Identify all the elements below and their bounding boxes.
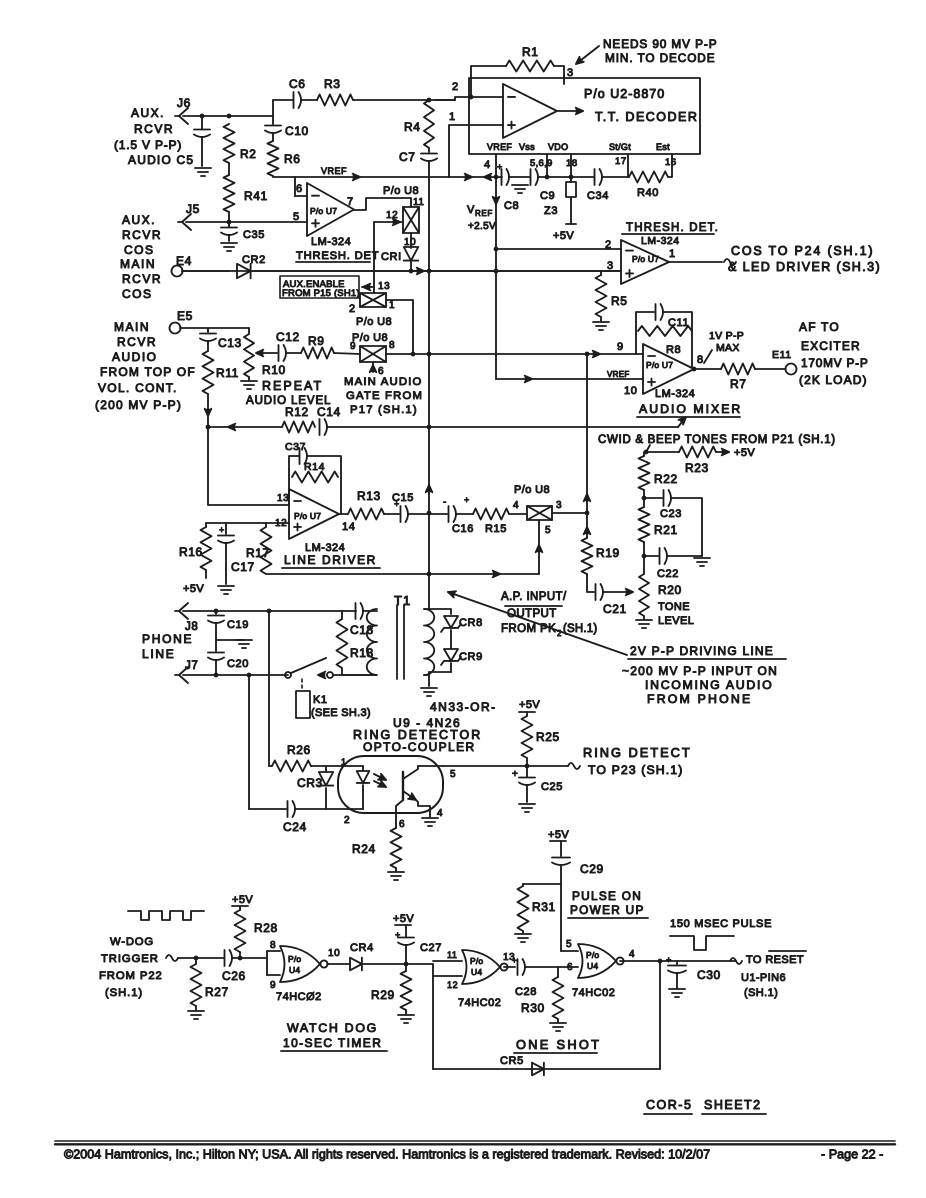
- svg-text:R15: R15: [485, 523, 507, 535]
- svg-text:1: 1: [449, 111, 456, 123]
- svg-text:+: +: [666, 955, 672, 965]
- svg-text:C29: C29: [580, 862, 604, 876]
- svg-text:LINE: LINE: [142, 647, 175, 661]
- svg-text:CWID & BEEP TONES FROM P21 (SH: CWID & BEEP TONES FROM P21 (SH.1): [598, 434, 836, 446]
- svg-text:(SH.1): (SH.1): [105, 987, 143, 999]
- svg-text:74HC02: 74HC02: [458, 997, 501, 1009]
- svg-text:R6: R6: [284, 152, 301, 166]
- svg-text:P/o U7: P/o U7: [632, 254, 659, 264]
- svg-text:R5: R5: [611, 294, 628, 308]
- svg-text:10: 10: [328, 948, 340, 959]
- svg-text:R23: R23: [685, 461, 709, 475]
- svg-text:5,6,9: 5,6,9: [530, 158, 553, 169]
- svg-text:OUTPUT: OUTPUT: [507, 608, 557, 620]
- svg-text:E11: E11: [772, 349, 792, 361]
- svg-text:C30: C30: [697, 968, 721, 982]
- svg-text:TO RESET: TO RESET: [746, 954, 804, 966]
- svg-text:St/Gt: St/Gt: [609, 142, 631, 152]
- svg-text:C37: C37: [285, 441, 306, 453]
- svg-text:P/o U8: P/o U8: [356, 316, 392, 328]
- svg-text:2: 2: [452, 81, 459, 93]
- svg-text:~200 MV P-P INPUT ON: ~200 MV P-P INPUT ON: [622, 664, 778, 678]
- svg-text:LM-324: LM-324: [655, 388, 695, 400]
- svg-text:R12: R12: [285, 405, 309, 419]
- svg-text:U4: U4: [289, 965, 300, 975]
- svg-text:CR4: CR4: [350, 942, 374, 954]
- svg-text:P/o U7: P/o U7: [310, 206, 337, 216]
- svg-text:ONE SHOT: ONE SHOT: [516, 1037, 601, 1052]
- svg-text:NEEDS 90 MV P-P: NEEDS 90 MV P-P: [603, 37, 717, 51]
- svg-text:COS TO P24 (SH.1): COS TO P24 (SH.1): [731, 244, 874, 258]
- svg-text:17: 17: [615, 156, 627, 167]
- svg-text:14: 14: [342, 521, 355, 533]
- svg-text:P/o U7: P/o U7: [646, 360, 673, 370]
- svg-text:C35: C35: [243, 229, 265, 241]
- svg-text:R21: R21: [654, 523, 678, 537]
- svg-text:6: 6: [399, 819, 405, 830]
- svg-text:OPTO-COUPLER: OPTO-COUPLER: [363, 740, 476, 754]
- svg-text:+: +: [497, 162, 503, 172]
- svg-text:1: 1: [389, 300, 395, 311]
- svg-text:R2: R2: [240, 147, 257, 161]
- svg-text:R11: R11: [216, 366, 239, 380]
- svg-text:5: 5: [450, 769, 456, 780]
- svg-text:C17: C17: [231, 560, 255, 574]
- svg-text:R7: R7: [730, 377, 747, 391]
- svg-text:COR-5: COR-5: [646, 1098, 692, 1112]
- svg-text:PULSE ON: PULSE ON: [572, 889, 642, 903]
- svg-text:(1.5 V P-P): (1.5 V P-P): [114, 138, 182, 152]
- svg-text:P17 (SH.1): P17 (SH.1): [350, 404, 418, 416]
- svg-text:R1: R1: [522, 45, 539, 59]
- svg-text:4N33-OR-: 4N33-OR-: [430, 700, 497, 714]
- svg-text:C20: C20: [227, 658, 249, 670]
- svg-text:R3: R3: [324, 77, 341, 91]
- svg-text:C16: C16: [452, 523, 474, 535]
- svg-text:+5V: +5V: [183, 583, 204, 595]
- svg-text:+: +: [512, 956, 517, 965]
- svg-text:COS: COS: [124, 243, 155, 257]
- svg-text:P/o U7: P/o U7: [294, 511, 321, 521]
- svg-text:WATCH DOG: WATCH DOG: [287, 1021, 378, 1035]
- svg-text:REF: REF: [475, 209, 493, 218]
- svg-text:VREF: VREF: [321, 166, 347, 176]
- svg-text:CR2: CR2: [242, 254, 266, 266]
- svg-text:R17: R17: [246, 546, 270, 560]
- svg-text:+: +: [394, 499, 400, 509]
- svg-text:MAIN AUDIO: MAIN AUDIO: [344, 376, 423, 388]
- svg-text:7: 7: [347, 196, 354, 208]
- svg-text:5: 5: [545, 525, 551, 536]
- svg-text:+5V: +5V: [232, 894, 253, 906]
- svg-text:4: 4: [484, 159, 491, 171]
- svg-text:13: 13: [378, 281, 390, 292]
- svg-text:+5V: +5V: [553, 230, 574, 242]
- svg-text:J8: J8: [185, 621, 198, 633]
- svg-text:P/o U8: P/o U8: [352, 332, 388, 344]
- svg-text:C7: C7: [399, 150, 416, 164]
- svg-text:FROM PK: FROM PK: [501, 623, 556, 635]
- svg-text:AUDIO: AUDIO: [112, 350, 158, 364]
- svg-text:C22: C22: [657, 568, 679, 580]
- svg-text:+5V: +5V: [519, 699, 540, 711]
- svg-text:POWER UP: POWER UP: [570, 903, 645, 917]
- svg-text:3: 3: [567, 67, 574, 79]
- svg-text:R27: R27: [205, 985, 229, 999]
- svg-text:VREF: VREF: [607, 370, 630, 379]
- svg-text:(SEE SH.3): (SEE SH.3): [311, 707, 371, 719]
- svg-text:INCOMING AUDIO: INCOMING AUDIO: [645, 678, 773, 692]
- svg-text:16: 16: [665, 157, 677, 168]
- svg-text:+5V: +5V: [734, 447, 755, 459]
- svg-text:THRESH. DET.: THRESH. DET.: [626, 222, 719, 234]
- svg-text:R19: R19: [596, 546, 620, 560]
- svg-text:C21: C21: [603, 602, 627, 616]
- svg-text:Z3: Z3: [544, 205, 558, 217]
- svg-text:VDO: VDO: [548, 142, 568, 152]
- svg-text:- Page 22 -: - Page 22 -: [821, 1148, 883, 1162]
- svg-text:CR8: CR8: [459, 617, 483, 629]
- svg-text:150 MSEC PULSE: 150 MSEC PULSE: [670, 918, 772, 930]
- svg-text:AUX.: AUX.: [122, 213, 156, 227]
- svg-text:R29: R29: [371, 988, 395, 1002]
- svg-text:R16: R16: [179, 545, 203, 559]
- svg-text:FROM P22: FROM P22: [99, 970, 163, 982]
- svg-text:(SH.1): (SH.1): [563, 623, 597, 635]
- svg-text:COS: COS: [122, 287, 153, 301]
- svg-text:+5V: +5V: [548, 829, 569, 841]
- svg-text:6: 6: [296, 183, 303, 195]
- svg-text:4: 4: [629, 949, 635, 960]
- svg-text:R4: R4: [404, 120, 421, 134]
- svg-text:R13: R13: [357, 489, 381, 503]
- svg-text:TO P23 (SH.1): TO P23 (SH.1): [588, 763, 683, 777]
- svg-text:RCVR: RCVR: [134, 122, 174, 136]
- svg-text:R28: R28: [254, 921, 278, 935]
- svg-text:R25: R25: [536, 730, 560, 744]
- svg-text:FROM P15 (SH1): FROM P15 (SH1): [282, 288, 360, 299]
- svg-text:9: 9: [617, 341, 624, 353]
- svg-text:11: 11: [447, 950, 458, 960]
- svg-text:(200 MV P-P): (200 MV P-P): [95, 398, 182, 412]
- svg-text:2: 2: [605, 239, 612, 251]
- svg-text:1: 1: [341, 757, 347, 767]
- svg-text:R8: R8: [666, 344, 681, 356]
- svg-text:AF TO: AF TO: [799, 320, 840, 334]
- svg-text:VREF: VREF: [487, 142, 512, 152]
- svg-text:-: -: [443, 497, 447, 508]
- svg-text:P/o: P/o: [586, 950, 599, 960]
- svg-text:©2004 Hamtronics, Inc.; Hilto: ©2004 Hamtronics, Inc.; Hilton NY; USA. …: [64, 1148, 710, 1162]
- svg-text:PHONE: PHONE: [142, 632, 193, 646]
- svg-text:5: 5: [566, 939, 572, 950]
- svg-text:THRESH. DET: THRESH. DET: [296, 250, 379, 262]
- svg-text:C19: C19: [227, 619, 249, 631]
- svg-text:MAIN: MAIN: [114, 320, 150, 334]
- svg-text:REPEAT: REPEAT: [262, 379, 323, 393]
- svg-text:P/o: P/o: [288, 954, 301, 964]
- svg-text:LM-324: LM-324: [641, 235, 680, 247]
- svg-text:(SH.1): (SH.1): [744, 987, 778, 999]
- svg-text:AUX.: AUX.: [131, 106, 165, 120]
- svg-text:3: 3: [556, 500, 562, 511]
- svg-text:2: 2: [349, 303, 356, 315]
- svg-text:9: 9: [270, 980, 276, 991]
- svg-text:8: 8: [697, 354, 704, 366]
- svg-text:EXCITER: EXCITER: [801, 339, 861, 353]
- svg-text:VOL. CONT.: VOL. CONT.: [98, 381, 178, 395]
- svg-text:10-SEC TIMER: 10-SEC TIMER: [283, 1036, 382, 1050]
- svg-text:C14: C14: [317, 405, 341, 419]
- svg-text:& LED DRIVER (SH.3): & LED DRIVER (SH.3): [728, 260, 881, 274]
- svg-text:C12: C12: [276, 330, 300, 344]
- svg-text:RCVR: RCVR: [117, 335, 157, 349]
- svg-text:R22: R22: [654, 472, 678, 486]
- svg-text:LEVEL: LEVEL: [658, 615, 694, 627]
- svg-text:U4: U4: [471, 967, 482, 977]
- svg-text:C10: C10: [285, 124, 309, 138]
- svg-text:C6: C6: [289, 77, 306, 91]
- svg-text:C25: C25: [541, 781, 563, 793]
- svg-text:8: 8: [270, 940, 276, 951]
- svg-text:R10: R10: [262, 363, 286, 377]
- svg-text:+2.5V: +2.5V: [468, 221, 496, 232]
- svg-text:C8: C8: [504, 200, 519, 212]
- svg-text:2: 2: [344, 815, 350, 826]
- svg-text:RING DETECT: RING DETECT: [583, 745, 692, 760]
- svg-text:4: 4: [513, 500, 519, 511]
- svg-text:W-DOG: W-DOG: [110, 936, 154, 948]
- svg-text:+5V: +5V: [393, 913, 414, 925]
- svg-text:SHEET2: SHEET2: [704, 1098, 762, 1112]
- svg-text:C24: C24: [283, 820, 307, 834]
- svg-text:MAX: MAX: [716, 342, 740, 354]
- svg-text:1: 1: [669, 248, 676, 260]
- svg-text:C26: C26: [222, 969, 246, 983]
- svg-text:74HC02: 74HC02: [572, 987, 615, 999]
- svg-text:LM-324: LM-324: [311, 236, 351, 248]
- svg-text:A.P. INPUT/: A.P. INPUT/: [501, 591, 567, 603]
- svg-text:8: 8: [389, 340, 395, 351]
- svg-text:MIN. TO DECODE: MIN. TO DECODE: [605, 51, 715, 65]
- svg-text:R30: R30: [521, 1001, 545, 1015]
- svg-text:R24: R24: [352, 842, 376, 856]
- svg-text:TONE: TONE: [658, 601, 690, 613]
- svg-text:74HCØ2: 74HCØ2: [276, 991, 322, 1003]
- svg-text:MAIN: MAIN: [120, 257, 156, 271]
- svg-text:C28: C28: [515, 986, 537, 998]
- svg-text:P/o U8: P/o U8: [383, 185, 419, 197]
- svg-text:R26: R26: [287, 743, 311, 757]
- svg-text:RCVR: RCVR: [122, 228, 162, 242]
- svg-text:AUDIO C5: AUDIO C5: [128, 153, 194, 167]
- svg-text:3: 3: [607, 260, 614, 272]
- svg-text:V: V: [467, 204, 475, 216]
- svg-text:C27: C27: [420, 942, 442, 954]
- svg-text:R20: R20: [658, 583, 682, 597]
- svg-text:CRI: CRI: [381, 251, 402, 263]
- svg-text:U4: U4: [587, 961, 598, 971]
- svg-text:10: 10: [624, 385, 637, 397]
- svg-text:R40: R40: [637, 187, 659, 199]
- svg-text:TRIGGER: TRIGGER: [101, 953, 159, 965]
- svg-text:170MV P-P: 170MV P-P: [801, 356, 869, 370]
- svg-text:P/o U8: P/o U8: [514, 484, 550, 496]
- svg-text:+: +: [219, 525, 225, 535]
- svg-text:T.T. DECODER: T.T. DECODER: [595, 110, 698, 124]
- svg-text:J5: J5: [186, 202, 200, 216]
- svg-text:R14: R14: [304, 461, 325, 473]
- svg-text:+: +: [395, 930, 401, 940]
- svg-text:R18: R18: [350, 646, 374, 660]
- svg-text:U1-PIN6: U1-PIN6: [741, 972, 786, 984]
- svg-text:6: 6: [567, 962, 573, 973]
- svg-text:C34: C34: [587, 190, 609, 202]
- svg-text:Vss: Vss: [519, 142, 535, 152]
- svg-text:CR5: CR5: [500, 1055, 524, 1067]
- svg-text:C9: C9: [540, 190, 555, 202]
- svg-text:LINE DRIVER: LINE DRIVER: [284, 553, 377, 567]
- svg-text:12: 12: [447, 980, 458, 990]
- svg-text:CR9: CR9: [459, 651, 483, 663]
- svg-text:+: +: [512, 769, 518, 780]
- svg-text:R9: R9: [308, 334, 325, 348]
- svg-text:+: +: [464, 495, 470, 505]
- svg-text:K1: K1: [313, 694, 328, 706]
- svg-text:C11: C11: [668, 317, 689, 329]
- svg-text:E5: E5: [177, 309, 193, 323]
- svg-text:C23: C23: [660, 508, 682, 520]
- svg-text:C13: C13: [218, 336, 242, 350]
- svg-text:(2K LOAD): (2K LOAD): [799, 373, 868, 387]
- svg-text:P/o: P/o: [470, 956, 483, 966]
- svg-text:FROM TOP OF: FROM TOP OF: [100, 365, 196, 379]
- svg-text:CR3: CR3: [297, 776, 323, 790]
- svg-text:13: 13: [277, 493, 289, 504]
- svg-text:P/o U2-8870: P/o U2-8870: [584, 87, 665, 101]
- svg-text:1V P-P: 1V P-P: [709, 330, 744, 342]
- svg-text:2V P-P DRIVING LINE: 2V P-P DRIVING LINE: [630, 644, 774, 658]
- svg-text:R31: R31: [532, 900, 556, 914]
- svg-text:4: 4: [437, 808, 443, 819]
- svg-text:5: 5: [293, 211, 300, 223]
- svg-text:AUDIO MIXER: AUDIO MIXER: [639, 402, 742, 416]
- svg-text:R41: R41: [244, 189, 268, 203]
- svg-text:RCVR: RCVR: [122, 272, 162, 286]
- svg-text:GATE FROM: GATE FROM: [346, 390, 423, 402]
- svg-text:FROM PHONE: FROM PHONE: [647, 692, 752, 706]
- svg-text:C18: C18: [350, 623, 374, 637]
- svg-text:J7: J7: [185, 660, 198, 672]
- svg-text:Est: Est: [656, 142, 670, 152]
